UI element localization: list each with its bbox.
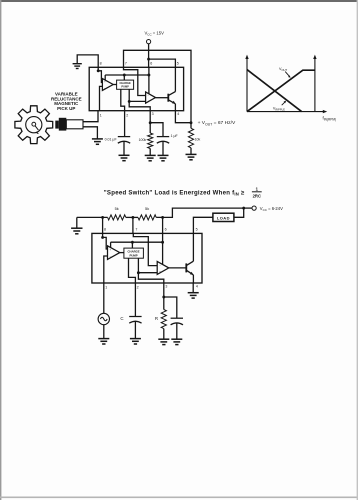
svg-text:4: 4 [196,285,198,289]
svg-text:8: 8 [104,227,106,231]
label VOUT on graph [279,67,291,78]
pin 3 label bottom IC [165,285,167,289]
load block [213,213,234,221]
svg-text:3: 3 [165,285,167,289]
wire collector to pin 5 [174,67,176,91]
pin 5 label [177,62,179,66]
svg-text:6: 6 [165,227,167,231]
ground divider left [71,217,82,233]
wire pickup upper terminal to pin 1 [83,111,98,122]
pin 4 label bottom IC [196,285,198,289]
wire pin 6 to op-amp supply [148,67,150,94]
pin 6 label [150,62,152,66]
label fIN RPM x-axis [323,115,337,121]
ground pin 4 [188,283,199,298]
op-amp U1A input comparator [102,79,113,91]
wire load to collector pin 5 [193,217,213,233]
caption speed switch formula [104,186,262,198]
power terminal VCC bottom [244,206,283,212]
value label 5k first [115,206,119,211]
svg-text:5: 5 [196,227,198,231]
power terminal VCC top [145,30,165,43]
charge pump block U2 [124,242,143,258]
ground capacitor C2 [171,339,182,344]
wire comparator output to charge pump bottom [120,252,124,254]
op-amp U2A input comparator [108,246,120,260]
pin 7 label [125,62,127,66]
graph curve VOUT rising [247,70,315,111]
capacitor C2 parallel [164,297,183,339]
wire charge pump output node bottom [137,258,164,283]
output label VOUT [198,120,236,126]
value label C [120,316,123,321]
svg-text:0.01 μF: 0.01 μF [105,138,117,142]
wire charge pump output node [128,89,150,110]
wire pin 8 to comparator inverting input [97,67,103,82]
variable reluctance magnetic pickup label [51,91,82,111]
charge pump block U1 [117,75,134,89]
svg-text:5k: 5k [145,206,149,211]
ground capacitor 0.01uF [119,155,130,160]
wire pin 6 riser bottom [162,217,164,233]
ground resistor 100k [145,155,156,160]
op-amp U1B output buffer [146,92,156,103]
value label 5k second [145,206,149,211]
gear wheel of magnetic pickup [15,106,53,144]
graph y-axis left [245,55,248,112]
node VOUT [190,121,193,124]
IC U1 LM2907 outline [89,67,183,110]
ground resistor 10k [186,154,197,159]
svg-text:PUMP: PUMP [121,85,129,89]
capacitor C at pin 2 [129,283,141,339]
wire VCC branch to pin 5 collector [149,59,176,67]
svg-text:CHARGE: CHARGE [119,81,131,85]
graph curve VRIPPLE falling [247,70,302,112]
wire charge pump to pin 2 [121,89,125,110]
wire op-amp output to transistor base [156,97,169,99]
resistor 10k load [188,123,193,155]
wire pin 6 to op-amp supply bottom [162,233,164,264]
wire emitter to pin 4 and VOUT node [175,104,191,123]
wire pin 8 to comparator input bottom [101,233,107,249]
value label 0.01uF [105,138,117,142]
wire ground to resistor bus [77,216,108,219]
node pin 3 output [149,111,152,124]
capacitor 0.01uF at pin 2 [118,111,130,156]
wire pickup lower terminal to ground [83,127,97,139]
ground signal source [98,339,109,344]
svg-text:1: 1 [100,113,102,117]
svg-text:5k: 5k [115,206,119,211]
resistor R2 5k [138,215,156,220]
ground capacitor C [130,339,141,344]
wire pin 1 to comparator input bottom [104,256,108,283]
wire emitter to pin 4 bottom [192,275,194,283]
wire pin 7 to op-amp inverting input [124,67,146,95]
svg-text:"Speed Switch" Load is Energiz: "Speed Switch" Load is Energized When fI… [104,189,245,196]
pin 8 label bottom IC [104,227,106,231]
value label 100k [139,138,147,142]
svg-text:10k: 10k [195,138,201,142]
svg-text:+ VOUT = 67 Hz/V: + VOUT = 67 Hz/V [198,120,236,126]
pin 2 label [126,113,128,117]
internal VCC rail bottom [111,241,164,248]
svg-text:R: R [155,316,158,321]
resistor 100k [148,123,153,156]
svg-text:2RC: 2RC [253,193,261,198]
wire divider to VCC node [156,207,245,219]
svg-text:2: 2 [137,286,139,290]
pin 4 label [177,112,179,116]
transistor Q2 output NPN [186,261,193,275]
pin 8 label [100,62,102,66]
svg-text:LOAD: LOAD [217,216,230,221]
magnetic pickup sensor body [55,118,83,131]
graph right vertical axis [313,55,316,112]
op-amp U2B output buffer [157,261,169,274]
wire charge pump to pin 2 bottom [129,258,136,283]
IC U2 LM2907 outline [92,233,202,283]
internal VCC rail [105,74,150,81]
svg-text:100k: 100k [139,138,147,142]
svg-text:PICK UP: PICK UP [57,106,75,111]
pin 7 label bottom IC [135,227,137,231]
wire pin 8 riser bottom [102,217,104,233]
pin 1 label bottom IC [105,286,107,290]
wire VCC terminal to pin 6 [147,44,150,68]
svg-text:PUMP: PUMP [130,253,138,257]
wire feedback pin 7 to VOUT node [124,50,192,122]
pin 1 label [100,113,102,117]
svg-text:7: 7 [135,227,137,231]
wire collector to pin 5 bottom [192,233,194,261]
label VRIPPLE on graph [273,101,286,112]
wire load to VCC node [234,208,244,217]
wire divider middle [126,216,138,219]
svg-text:1: 1 [105,286,107,290]
pin 5 label bottom IC [196,227,198,231]
ground capacitor 1uF [158,155,169,160]
value label 10k [195,138,201,142]
pin 2 label bottom IC [137,286,139,290]
resistor R timing [161,297,166,339]
wire comparator output to charge pump [113,84,116,86]
graph x-axis [247,110,327,113]
pin 6 label bottom IC [165,227,167,231]
wire pin 1 to comparator input [100,86,103,110]
svg-text:8: 8 [100,62,102,66]
ground at pin 8 [73,55,99,69]
wire pin 7 to op-amp inverting input bottom [133,233,157,265]
capacitor 1uF at pin 3 [150,123,169,156]
svg-text:5: 5 [177,62,179,66]
value label R [155,316,158,321]
ground resistor R [158,339,169,344]
wire pin 7 riser bottom [132,217,134,233]
node pin 3 bottom [162,283,165,298]
svg-text:7: 7 [125,62,127,66]
transistor Q1 output NPN [168,92,175,104]
svg-text:C: C [120,316,123,321]
svg-text:6: 6 [150,62,152,66]
svg-text:1 μF: 1 μF [171,134,178,138]
value label 1uF [171,134,178,138]
wire op-amp output to transistor base bottom [169,267,187,269]
pin 3 label [152,112,154,116]
svg-text:3: 3 [152,112,154,116]
resistor R1 5k [108,215,126,220]
signal source fIN [98,283,109,339]
ground pickup return [92,139,103,144]
svg-text:2: 2 [126,113,128,117]
svg-text:4: 4 [177,112,179,116]
